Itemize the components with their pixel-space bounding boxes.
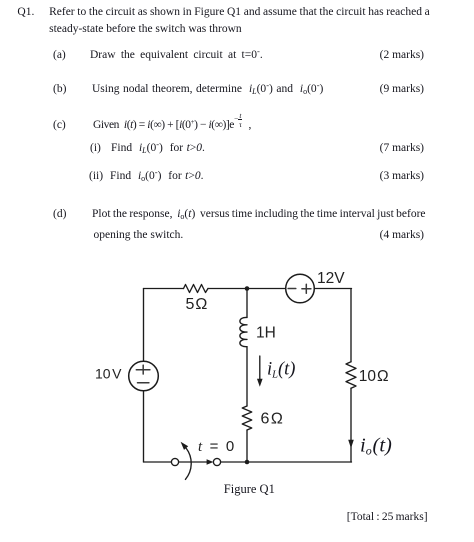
svg-text:12V: 12V — [317, 270, 345, 287]
svg-text:6Ω: 6Ω — [261, 411, 283, 428]
svg-text:t = 0: t = 0 — [198, 438, 234, 455]
svg-text:10Ω: 10Ω — [359, 368, 389, 385]
svg-text:io(t): io(t) — [360, 435, 392, 458]
svg-text:iL(t): iL(t) — [267, 360, 295, 381]
svg-text:10V: 10V — [95, 366, 122, 382]
svg-text:1H: 1H — [256, 325, 276, 342]
svg-text:5Ω: 5Ω — [186, 296, 208, 313]
